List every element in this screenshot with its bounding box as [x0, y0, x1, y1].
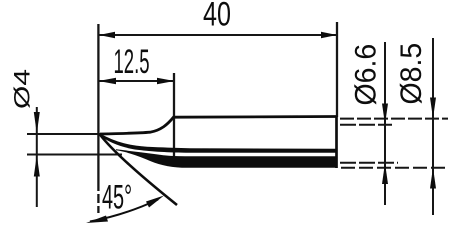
svg-text:Ø4: Ø4	[10, 69, 35, 109]
arrowhead 40 right	[321, 32, 337, 38]
svg-text:40: 40	[203, 0, 231, 33]
right extension dashed line 6.6 bottom (y=162.8)	[340, 162, 398, 164]
chisel bottom edge / thin stripe	[100, 133, 337, 152]
svg-text:Ø6.6: Ø6.6	[350, 44, 383, 106]
arc right arrowhead	[146, 196, 164, 208]
45 degree arc	[90, 200, 158, 222]
arrowhead 12.5 left	[98, 78, 116, 84]
diameter 4 down arrowhead	[34, 112, 40, 134]
tip top profile	[100, 117, 337, 135]
diameter 4 top extension line (y=134)	[27, 133, 100, 135]
diameter 6.6 up arrowhead	[382, 163, 388, 184]
arrowhead 40 left	[99, 32, 115, 38]
extension line left lower dashed part	[97, 182, 99, 213]
diameter 6.6 arrow shaft (x=385)	[384, 42, 386, 205]
diameter 4 up arrowhead	[34, 155, 40, 177]
extension line left (x=98.4)	[97, 24, 99, 182]
svg-text:Ø8.5: Ø8.5	[395, 43, 428, 105]
svg-text:45°: 45°	[102, 178, 132, 216]
right extension dashed line 8.5 bottom (y=167.8)	[341, 167, 448, 169]
diameter 8.5 down arrowhead	[430, 98, 436, 119]
diameter 4 bottom extension line (y=154.5)	[27, 154, 122, 156]
dimension line 40 (y=35)	[99, 34, 337, 36]
diameter 8.5 arrow shaft (x=433)	[432, 38, 434, 215]
arrowhead 12.5 right	[157, 78, 174, 84]
dimension line 12.5 (y=81)	[98, 80, 174, 82]
right extension dashed line 8.5 top (y=118.6)	[340, 118, 448, 120]
body right edge	[335, 117, 338, 169]
extension line right for 40 (x=337)	[336, 22, 338, 117]
arc left arrowhead	[86, 216, 108, 224]
diameter 6.6 down arrowhead	[382, 104, 388, 125]
svg-text:12.5: 12.5	[113, 42, 149, 80]
dark underside band	[116, 149, 337, 167]
right extension dashed line 6.6 top (y=124.8)	[340, 124, 392, 126]
diameter 8.5 up arrowhead	[430, 168, 436, 189]
extension line for 12.5 (x=174)	[173, 73, 175, 156]
45 degree line	[100, 134, 178, 205]
diameter 4 arrow shaft (x=36.8)	[36, 107, 38, 207]
